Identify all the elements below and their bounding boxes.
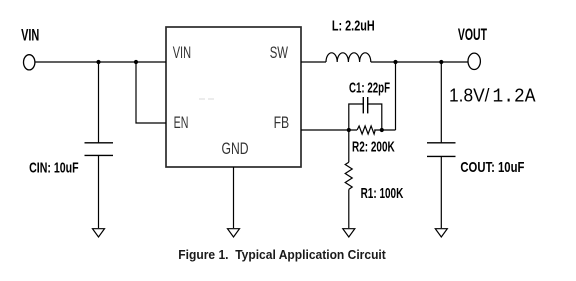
svg-text:FB: FB xyxy=(274,114,290,132)
label output rating xyxy=(449,85,536,107)
svg-text:Figure 1. Typical Application: Figure 1. Typical Application Circuit xyxy=(178,247,386,262)
svg-text:1.2A: 1.2A xyxy=(493,85,536,107)
svg-text:VIN: VIN xyxy=(173,44,191,62)
terminal VOUT xyxy=(468,53,480,69)
svg-text:VIN: VIN xyxy=(21,26,39,45)
wire COUT top xyxy=(440,62,442,142)
wire CIN bottom xyxy=(98,155,100,228)
node CIN junction xyxy=(96,60,100,64)
ground CIN xyxy=(93,229,105,237)
node R2 junction xyxy=(380,128,384,132)
wire VIN to IC xyxy=(35,61,166,63)
ground COUT xyxy=(435,229,447,237)
wire R1 to ground xyxy=(348,189,350,228)
capacitor COUT xyxy=(427,143,456,157)
svg-text:VOUT: VOUT xyxy=(458,25,487,44)
svg-text:EN: EN xyxy=(174,114,189,132)
wire artifact xyxy=(199,98,214,100)
wire inductor to VOUT xyxy=(371,61,468,63)
ground GND xyxy=(228,229,240,237)
capacitor C1 xyxy=(349,97,382,130)
resistor R1 xyxy=(345,162,352,189)
resistor R2 xyxy=(357,126,375,134)
svg-text:1.8V/: 1.8V/ xyxy=(449,85,490,105)
terminal VIN xyxy=(24,55,35,70)
wire COUT bottom xyxy=(440,156,442,228)
svg-text:COUT: 10uF: COUT: 10uF xyxy=(460,159,524,176)
wire FB node to R1 xyxy=(348,130,350,162)
wire SW to inductor xyxy=(301,61,326,63)
node FB junction xyxy=(347,128,351,132)
svg-text:SW: SW xyxy=(270,44,289,62)
inductor L1 xyxy=(326,53,371,62)
wire CIN top xyxy=(98,62,100,142)
svg-text:CIN: 10uF: CIN: 10uF xyxy=(29,159,79,176)
svg-text:GND: GND xyxy=(222,140,249,158)
svg-text:R1: 100K: R1: 100K xyxy=(361,185,404,202)
svg-text:C1: 22pF: C1: 22pF xyxy=(349,80,390,97)
node SW-FB junction xyxy=(393,60,397,64)
wire EN branch xyxy=(136,62,166,123)
wire R2 to riser xyxy=(374,129,395,131)
svg-text:R2: 200K: R2: 200K xyxy=(352,139,395,156)
capacitor CIN xyxy=(85,143,114,156)
wire feedback riser xyxy=(395,62,397,130)
wire GND pin xyxy=(233,167,235,228)
IC U1 xyxy=(166,27,301,167)
node VOUT junction xyxy=(439,60,443,64)
svg-text:L: 2.2uH: L: 2.2uH xyxy=(332,18,375,35)
ground R1 xyxy=(343,229,355,237)
wire FB to node xyxy=(301,129,357,131)
node EN junction xyxy=(134,60,138,64)
